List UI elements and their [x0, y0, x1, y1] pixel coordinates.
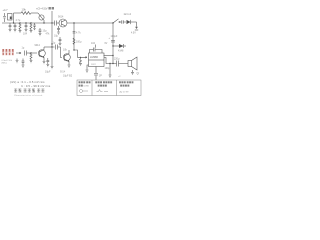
wire: main rail [2, 22, 55, 24]
node [73, 49, 74, 50]
node [51, 43, 52, 44]
notes box [77, 80, 141, 96]
resistor R1 [21, 8, 31, 15]
IC U1 LM386 [89, 53, 105, 67]
wire: IC top to rail vertical [104, 55, 114, 57]
svg-text:12-1.4: 12-1.4 [124, 12, 132, 16]
wire: upper feed [14, 12, 22, 14]
svg-text:Characteristics of circuit: Characteristics of circuit [14, 94, 43, 97]
resistor R8 [79, 56, 84, 65]
wire: IC output [104, 58, 117, 64]
svg-text:220μ: 220μ [114, 58, 120, 61]
wire [13, 13, 15, 23]
resistor R2 [19, 23, 22, 33]
svg-text:10μ: 10μ [54, 35, 59, 38]
transistor VT1 [35, 44, 46, 61]
svg-text:100μ: 100μ [76, 41, 82, 44]
wire [51, 47, 53, 66]
wire [74, 50, 84, 57]
capacitor C5b [54, 35, 61, 46]
svg-text:1μ: 1μ [53, 42, 56, 45]
marker triangle [137, 73, 139, 75]
ground [109, 75, 112, 77]
svg-text:(mV) a : 0.1 ~ 0.5 mV rms: (mV) a : 0.1 ~ 0.5 mV rms [10, 80, 45, 84]
svg-text:9014: 9014 [58, 16, 64, 19]
capacitor C3 [23, 23, 28, 36]
capacitor C5 [39, 28, 48, 36]
node [109, 63, 110, 64]
notes box symbols [80, 90, 109, 93]
svg-text:4.5V: 4.5V [131, 33, 136, 35]
svg-text:104: 104 [23, 33, 28, 36]
resistor R7 [30, 53, 33, 63]
wire: right vertical [112, 23, 114, 64]
capacitor C7 [73, 32, 82, 35]
feedback loop [90, 42, 103, 53]
svg-text:1μ: 1μ [22, 47, 25, 50]
capacitor C2 [14, 19, 21, 32]
capacitor C10 [114, 58, 128, 67]
ground [68, 65, 71, 67]
capacitor C12 [22, 59, 25, 68]
svg-text:47k: 47k [46, 33, 51, 36]
svg-text:(MIC): (MIC) [2, 63, 8, 65]
connector J1 [94, 67, 102, 81]
svg-text:4.7k: 4.7k [76, 32, 81, 35]
svg-text:10μ: 10μ [43, 30, 48, 33]
resistor R3 [30, 23, 33, 33]
wire [31, 12, 38, 14]
capacitor C8 [52, 42, 61, 50]
node [73, 22, 74, 23]
svg-text:×2: ×2 [118, 75, 121, 78]
text: title blocks [14, 89, 44, 93]
node: rail junctions [13, 22, 53, 23]
microphone BM [8, 14, 13, 21]
svg-text:JP: JP [99, 75, 102, 78]
resistor R6 [73, 38, 82, 44]
wire [109, 64, 111, 75]
wire: Q1 collector link [44, 46, 52, 48]
svg-text:4148: 4148 [118, 50, 124, 53]
svg-text:LM386: LM386 [90, 55, 98, 59]
node [51, 46, 52, 47]
label: mic note (gray) [2, 60, 13, 65]
wire: rail right [67, 22, 113, 24]
svg-text:0.5mV 10k: 0.5mV 10k [2, 60, 13, 62]
ground: IC pin [86, 65, 89, 72]
input arrow [16, 52, 21, 54]
svg-text:Ap·ml·99: Ap·ml·99 [120, 90, 130, 93]
svg-text:+4.7: +4.7 [3, 8, 9, 12]
wire: vertical feed x52 [51, 11, 53, 47]
capacitor C13 [46, 58, 49, 67]
terminal arrow [131, 22, 138, 35]
capacitor C11 [109, 35, 118, 42]
diode VD1 [127, 20, 137, 24]
svg-text:104: 104 [91, 42, 96, 45]
wire [61, 47, 63, 58]
connector ticks [122, 20, 126, 23]
svg-text:b : 0.5 ~ 99.9 mV rms: b : 0.5 ~ 99.9 mV rms [22, 84, 51, 88]
notes box text [79, 81, 134, 87]
node [112, 63, 113, 64]
svg-text:6V: 6V [105, 43, 108, 45]
svg-text:100μF: 100μF [111, 35, 118, 38]
wire: vertical feed x74 [73, 23, 75, 50]
ground [16, 59, 19, 63]
svg-text:10k: 10k [63, 49, 68, 52]
capacitor C1 [9, 23, 12, 32]
svg-text:10k: 10k [22, 8, 27, 12]
svg-text:10μF: 10μF [45, 71, 51, 74]
ground [43, 62, 46, 64]
capacitor C4 (series on rail) [55, 21, 57, 26]
wire [57, 22, 60, 24]
svg-text:+(3~4.5)V: +(3~4.5)V [36, 7, 48, 11]
node [112, 45, 113, 46]
switch S1 [112, 19, 121, 24]
input arrow [84, 57, 88, 59]
speaker BL [128, 57, 137, 70]
ground [131, 70, 134, 75]
potentiometer RP1 [38, 13, 44, 23]
wire [27, 52, 38, 54]
svg-text:9014: 9014 [35, 44, 41, 47]
ground [51, 67, 54, 69]
label: mic input (red) [2, 49, 14, 55]
svg-text:100μ: 100μ [105, 67, 111, 70]
battery GB1 [3, 8, 9, 22]
capacitor C5c [57, 26, 60, 34]
svg-text:10μF B2: 10μF B2 [63, 75, 73, 78]
transistor VT2 [63, 49, 70, 65]
capacitor C3b [33, 23, 35, 31]
svg-text:9014: 9014 [60, 72, 66, 74]
diode VD2 [113, 44, 126, 53]
transistor VT0 (inline stage) [58, 16, 67, 28]
svg-text:0.5W: 0.5W [84, 86, 90, 88]
svg-text:2822: 2822 [91, 64, 97, 66]
node [30, 52, 31, 53]
capacitor C6 [22, 47, 27, 56]
svg-text:4.7μ: 4.7μ [16, 19, 21, 22]
